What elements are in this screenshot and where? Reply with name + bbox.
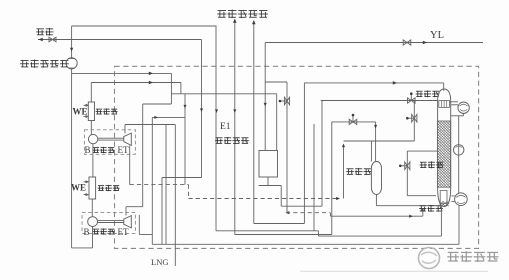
svg-text:B: B <box>84 227 90 237</box>
wire dome to fan1 <box>450 101 458 103</box>
wire riser1 collect <box>235 234 332 236</box>
pump P1 <box>454 145 464 155</box>
arrow down into compressor <box>70 48 73 52</box>
dashed subcool line <box>286 212 330 214</box>
wire vert 304 <box>303 83 305 224</box>
column label <box>420 161 427 163</box>
svg-text:ET: ET <box>118 145 129 155</box>
arrow down riser1 <box>233 109 236 113</box>
wire cooler2 to B2 <box>91 199 93 217</box>
valve draw <box>405 162 410 170</box>
wire valve riser <box>286 82 288 213</box>
column lattice packing <box>438 121 451 187</box>
valve on YL line <box>403 40 411 45</box>
unit1 dashed box <box>84 130 135 155</box>
wire cond to valve drop <box>413 101 415 142</box>
wire evap feed up <box>422 209 424 216</box>
watermark rule <box>300 270 488 272</box>
wire sep bottom <box>375 194 377 205</box>
arrow up riser1 <box>233 19 237 23</box>
wire sep liquid to evap <box>376 205 436 207</box>
wire vert 322 <box>321 101 323 207</box>
wire LNG collect <box>152 243 459 245</box>
cooler E-1 rect <box>88 102 94 121</box>
wire evap to fan2 <box>451 195 454 197</box>
condenser label <box>416 90 423 92</box>
wire subcool jog <box>329 213 331 217</box>
wire booster discharge to E1 <box>91 82 181 84</box>
valve on riser 287 <box>284 97 289 105</box>
wire vert 331 <box>331 122 333 235</box>
wire N2 line <box>38 39 202 41</box>
arrow down 185 <box>183 105 186 109</box>
wire cond drop <box>443 83 445 91</box>
arrow right cond top <box>393 81 397 85</box>
wire YL line <box>265 42 483 44</box>
wire cooler1 to B1 <box>90 121 92 135</box>
label main HX <box>215 137 222 139</box>
turbine ET1 cone <box>124 133 132 145</box>
wire long down 152 <box>151 117 153 244</box>
dashed expander discharge <box>130 184 189 186</box>
wire E1 pass a down <box>142 104 144 207</box>
wire draw drop <box>406 151 408 196</box>
wire up into booster B2 <box>92 226 94 248</box>
wire lng subcool solid <box>330 215 422 217</box>
wire cone2 outlet horiz <box>126 206 143 208</box>
svg-text:WE: WE <box>71 183 86 193</box>
arrow WE1 b <box>86 115 89 118</box>
wire cond feed line <box>321 100 438 102</box>
wire ET1 outlet <box>129 146 131 185</box>
label expander1 <box>93 147 99 149</box>
wire ET1 inlet header <box>125 124 175 126</box>
wire LNG vertical <box>174 125 176 267</box>
subcooler rect <box>259 151 278 178</box>
wire comp to E1 upper <box>72 72 172 74</box>
arrow N2 left <box>39 38 43 42</box>
arrow right 117 <box>154 116 158 119</box>
wire recycle riser A <box>215 26 217 231</box>
wire draw to evap <box>407 195 436 197</box>
turbine ET2 cone <box>124 216 132 228</box>
wire tail gas riser 2 <box>253 22 255 224</box>
svg-text:WE: WE <box>73 107 88 117</box>
compressor label <box>21 59 29 61</box>
wire ET1 inlet drop <box>124 125 126 134</box>
dashed to separator <box>189 198 337 200</box>
cooler1 label <box>96 108 102 110</box>
wire cond top line <box>304 82 443 84</box>
separator capsule <box>371 162 381 195</box>
wire YL riser <box>264 43 266 151</box>
wire cone2 inlet vert <box>125 207 127 216</box>
wire subcooler feed <box>276 94 278 151</box>
arrow down YL riser <box>264 103 267 107</box>
svg-text:E1: E1 <box>220 122 231 132</box>
watermark logo <box>419 248 440 269</box>
wire B1 to cooler2 <box>92 144 94 177</box>
wire fan3 drop <box>458 206 460 245</box>
arrow WE2 a <box>86 180 89 183</box>
cooler2 label <box>98 185 104 187</box>
arrow right on 73 <box>149 72 153 76</box>
tail gas label <box>218 10 226 12</box>
cold box dashed border <box>115 66 479 248</box>
wire cooler1 feed <box>90 83 92 103</box>
cooler E-2 rect <box>89 177 96 199</box>
arrow right 216 <box>409 215 413 218</box>
svg-text:B: B <box>85 145 91 155</box>
booster B2 circle <box>88 217 98 227</box>
wire collect A step <box>317 231 319 236</box>
wire horiz 206 <box>281 205 322 207</box>
arrow left subcool <box>286 211 290 214</box>
svg-text:LNG: LNG <box>151 257 168 267</box>
wire sep feed drop <box>375 122 377 162</box>
wire column draw <box>407 150 437 152</box>
wire WE2 arrow tails <box>84 181 89 183</box>
wire down 185 <box>184 94 186 185</box>
wire vert 314 <box>313 124 315 231</box>
arrow WE1 a <box>86 104 89 107</box>
arrow right on 82 <box>149 81 153 85</box>
arrow YL right <box>423 41 427 45</box>
wire bottom run to booster B2 <box>72 247 93 249</box>
wire evap drain left <box>318 235 441 237</box>
valve cond feed <box>408 98 416 103</box>
node N2 inlet label <box>37 28 44 30</box>
shaft1 <box>98 137 124 139</box>
wire sep top drop <box>370 141 372 162</box>
arrow down riserA <box>215 109 218 113</box>
wire sep vapor up <box>343 145 345 199</box>
fan F2 <box>455 193 468 206</box>
booster B1 circle <box>88 134 97 143</box>
valve reflux <box>412 114 417 122</box>
wire valve line 121 <box>332 121 376 123</box>
wire compressor discharge down <box>71 69 73 248</box>
wire horiz 185 <box>259 185 282 187</box>
wire header 141 <box>344 140 415 142</box>
wire E1 exit 117 <box>152 116 185 118</box>
wire booster riser drop <box>180 83 182 94</box>
wire tail gas riser 1 <box>234 22 236 235</box>
arrow WE2 b <box>86 193 89 196</box>
arrow up evap feed <box>421 208 424 211</box>
arrow dashed right <box>336 197 340 200</box>
watermark text <box>448 251 459 253</box>
wire riser into compressor <box>71 26 73 58</box>
valve on N2 line <box>49 37 56 42</box>
wire E1 pass a horiz <box>143 103 172 105</box>
dashed step <box>188 185 190 199</box>
arrow down riserB <box>200 108 203 112</box>
wire E1 pass a vert <box>170 73 172 104</box>
wire collect A <box>216 230 318 232</box>
evaporator label <box>419 205 426 207</box>
wire riser2 collect <box>254 223 305 225</box>
wire top return line <box>72 25 217 27</box>
column rectifier <box>438 89 451 101</box>
svg-text:ET: ET <box>118 227 129 237</box>
arrow up riser2 <box>252 20 256 24</box>
wire WE1 arrow tails <box>84 104 89 106</box>
wire down 162 <box>161 178 163 245</box>
shaft2 <box>98 220 124 222</box>
wire jog L a <box>138 215 140 235</box>
arrow up sep vapor <box>342 144 345 148</box>
wire vert 281 <box>280 186 282 207</box>
wire jog 82 <box>265 81 287 83</box>
wire reflux pump line <box>458 116 460 194</box>
label expander2 <box>93 228 99 230</box>
fan F1 <box>458 102 469 113</box>
wire exit 177 horiz <box>162 177 202 179</box>
arrow down sep feed <box>374 125 377 129</box>
wire subcooler drain <box>267 177 269 186</box>
compressor C1 circle <box>66 58 77 69</box>
separator label <box>346 168 353 170</box>
wire E1 mid horiz <box>171 93 276 95</box>
unit2 dashed box <box>82 212 135 233</box>
wire evap drain down <box>440 207 442 237</box>
wire fan1 return <box>462 113 464 115</box>
wire recycle riser B <box>201 40 203 178</box>
svg-text:YL: YL <box>430 30 444 41</box>
valve sep feed <box>349 119 357 124</box>
wire filler 166 <box>165 125 167 245</box>
wire jog L b <box>139 234 152 236</box>
